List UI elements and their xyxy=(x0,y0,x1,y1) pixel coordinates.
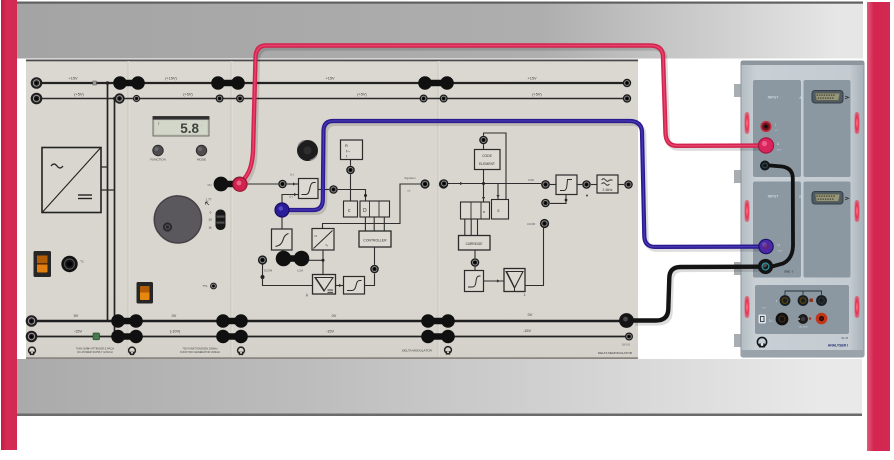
caption P1 xyxy=(76,347,114,355)
panel seam P2/P3 xyxy=(231,61,233,357)
wire P1 vertical feed 2 xyxy=(114,99,116,337)
black cable 1 xyxy=(633,267,758,321)
module mounting hooks xyxy=(734,84,742,347)
socket A ground xyxy=(760,161,770,171)
svg-text:/: / xyxy=(775,123,776,127)
wire dumbbell to node xyxy=(309,259,323,261)
socket demodulator input xyxy=(439,179,448,188)
label UCOM xyxy=(527,222,536,226)
wire filter in xyxy=(591,184,597,186)
socket comparator out xyxy=(329,185,338,194)
label under big socket xyxy=(782,328,783,330)
socket threshold xyxy=(541,199,550,208)
comparator U15 xyxy=(556,175,577,195)
lowpass filter U16 xyxy=(597,175,618,193)
wire DCOM down xyxy=(261,265,313,286)
socket demod out xyxy=(624,180,633,189)
module panel B right xyxy=(804,182,851,278)
terminal +5V left xyxy=(31,93,43,105)
bus bridging plug -15V seam1 xyxy=(111,330,143,344)
svg-text:CODE: CODE xyxy=(482,154,493,158)
range slide switch xyxy=(216,210,226,231)
panel shading overlay xyxy=(26,62,638,358)
label T1 xyxy=(80,260,84,264)
svg-text:0V: 0V xyxy=(528,313,533,317)
LCD display xyxy=(153,116,210,136)
label lambda xyxy=(524,293,526,297)
svg-text:+15V: +15V xyxy=(326,77,335,81)
wire drop 2 xyxy=(496,184,499,200)
wire DAC to sampler xyxy=(322,250,325,277)
bus wire +15V xyxy=(36,82,627,84)
wire sampler to shaper xyxy=(336,284,344,287)
bus label -15V P4 xyxy=(523,329,531,333)
DAC U6 xyxy=(312,229,334,251)
bus bridging plug +15V seam3 xyxy=(418,76,454,90)
wire FG to mod input xyxy=(246,183,278,185)
wire drop to shift cells xyxy=(482,170,485,203)
pushbutton T1 xyxy=(61,256,77,272)
code element box U9 xyxy=(475,150,501,170)
LED right 1 xyxy=(855,112,860,134)
black cable 2 xyxy=(770,166,793,267)
power socket 1 xyxy=(780,295,791,306)
wire plug to integrator xyxy=(281,214,283,229)
D-sub connector A xyxy=(812,91,849,104)
bridging plug FG out to modulator in xyxy=(214,177,247,192)
svg-text:FUNCTION GENERATOR 200kHz: FUNCTION GENERATOR 200kHz xyxy=(180,350,221,354)
power switch S1 xyxy=(34,251,52,277)
svg-text:T1: T1 xyxy=(80,260,84,264)
label LCM xyxy=(297,269,303,273)
bus label (+5V) P2 xyxy=(183,93,193,97)
socket +5V right end xyxy=(623,94,631,102)
terminal -15V left xyxy=(26,331,38,343)
socket A sense xyxy=(761,122,771,132)
socket +5V seam2 right xyxy=(236,95,244,103)
LED left 3 xyxy=(745,296,750,318)
svg-text:INPUT: INPUT xyxy=(768,96,780,100)
wire signal line to demod xyxy=(323,184,421,229)
svg-text:MODE: MODE xyxy=(197,158,206,162)
panel icon P1 right xyxy=(129,347,136,355)
socket decoder out xyxy=(471,258,480,267)
label x(t) xyxy=(290,173,294,177)
bridging plug DCOM-LCM xyxy=(276,251,310,267)
cable shadows xyxy=(245,48,761,323)
svg-text:DCOM: DCOM xyxy=(264,269,273,273)
power knob xyxy=(798,314,811,324)
bus bridging plug 0V seam1 xyxy=(111,314,143,328)
output switch S2 xyxy=(137,282,154,304)
svg-text:(+5V): (+5V) xyxy=(532,93,542,97)
svg-text:736 FUNKTIONSGEN 200kHz: 736 FUNKTIONSGEN 200kHz xyxy=(182,347,218,351)
wire filter out xyxy=(618,184,624,186)
panel icon P3 right xyxy=(445,347,452,355)
socket +5V seam3 right xyxy=(440,95,448,103)
fuse F1 on -15V bus xyxy=(93,333,100,340)
label TTL xyxy=(202,284,208,288)
wire U1 out 1 xyxy=(101,166,108,168)
label x2(t) xyxy=(289,195,293,199)
bus wire +5V xyxy=(36,98,627,100)
label MODE xyxy=(197,158,206,162)
D-sub connector B xyxy=(812,192,849,205)
wire into comparator xyxy=(287,182,299,185)
wire decoder to socket xyxy=(474,250,476,258)
svg-text:NL-70: NL-70 xyxy=(841,337,848,340)
svg-text:ELEMENT: ELEMENT xyxy=(479,162,495,166)
red plug at FG out xyxy=(233,177,247,191)
socket +5V seam3 left xyxy=(420,95,428,103)
bus label 0V P2 xyxy=(172,314,177,318)
module brand text xyxy=(828,337,849,348)
svg-text:2.4kHz: 2.4kHz xyxy=(603,188,613,192)
module headphone icon xyxy=(757,337,766,347)
module body xyxy=(741,61,864,357)
socket comparator4 in xyxy=(541,180,550,189)
svg-text:1.77: 1.77 xyxy=(206,198,212,202)
tiny dot xyxy=(586,195,588,197)
tiny label right end xyxy=(622,344,631,347)
svg-text:0V: 0V xyxy=(172,314,177,318)
socket +5V seam2 left xyxy=(216,95,224,103)
socket code clock xyxy=(479,136,488,145)
svg-text:THIN GMBH ATTINGER & PACH: THIN GMBH ATTINGER & PACH xyxy=(76,347,114,351)
svg-text:LCM: LCM xyxy=(297,269,303,273)
svg-text:-15V: -15V xyxy=(326,330,334,334)
bottom frame bar xyxy=(16,359,862,416)
wire node A1 xyxy=(106,81,110,85)
blue plug at modulator xyxy=(275,203,289,217)
wire comparator lower input xyxy=(282,193,299,205)
step-size knob R1 xyxy=(297,140,318,161)
LED left 2 xyxy=(745,200,750,222)
terminal 0V left xyxy=(26,315,38,327)
sampler U7 xyxy=(313,275,336,295)
caption P4 xyxy=(598,351,633,355)
black plug at module B gnd xyxy=(758,259,773,274)
flipflop cells D xyxy=(360,201,390,217)
wire shaper2 to DAC2 xyxy=(484,279,505,282)
caption P2 xyxy=(180,347,221,355)
bus bridging plug 0V seam3 xyxy=(421,314,455,328)
LED right 3 xyxy=(855,296,860,318)
svg-text:COD: COD xyxy=(528,178,534,182)
module panel A right xyxy=(804,80,851,177)
wire comp4 out xyxy=(550,184,582,186)
bus wire -15V xyxy=(32,336,631,338)
wire shaper to controller xyxy=(365,274,375,286)
svg-text:(+15V): (+15V) xyxy=(165,77,177,81)
bus bridging plug 0V seam2 xyxy=(216,314,248,328)
label U B xyxy=(777,243,783,253)
svg-text:CONTROLLER: CONTROLLER xyxy=(363,239,387,243)
svg-text:D: D xyxy=(363,208,367,214)
svg-text:n: n xyxy=(315,233,317,238)
label B xyxy=(799,195,802,199)
integrator U3 xyxy=(272,229,293,250)
label FUNCTION xyxy=(150,158,166,162)
socket -15V right end xyxy=(625,333,633,341)
button FUNCTION xyxy=(153,145,163,155)
icon fuse box xyxy=(759,315,774,324)
socket modulator signal input xyxy=(278,180,287,189)
label ut xyxy=(407,189,410,193)
socket UCOM xyxy=(540,219,549,228)
svg-text:5V: 5V xyxy=(74,314,79,318)
svg-text:GND ⏚: GND ⏚ xyxy=(784,270,794,274)
sample box U4 xyxy=(341,140,363,160)
bus label (+15V) P2 xyxy=(165,77,177,81)
power socket 2 xyxy=(798,295,809,306)
svg-text:DC-POWER SUPPLY & PACH: DC-POWER SUPPLY & PACH xyxy=(77,350,112,354)
label INPUT B xyxy=(768,195,780,199)
wire DAC2 up to UCOM xyxy=(525,228,544,286)
red cable xyxy=(243,46,758,181)
controller U5 xyxy=(359,231,391,247)
socket +15V right end xyxy=(623,79,631,87)
svg-text:-15V: -15V xyxy=(523,329,531,333)
wire controller to socket xyxy=(374,247,376,265)
socket TTL out xyxy=(210,283,217,290)
socket +5V seam1 right xyxy=(133,95,140,102)
bus label +15V P1 xyxy=(69,77,78,81)
LED right 2 xyxy=(855,200,860,222)
training panel background xyxy=(26,60,638,360)
svg-text:(+5V): (+5V) xyxy=(74,93,84,97)
DAC2 U14 xyxy=(504,269,525,292)
power red mark xyxy=(810,299,813,302)
wire cells to controller xyxy=(365,217,384,231)
wire to D flipflop xyxy=(338,190,367,202)
bus label (+5V) P3 xyxy=(357,93,367,97)
wire threshold xyxy=(550,195,567,204)
socket filter in xyxy=(582,180,591,189)
svg-text:(+5V): (+5V) xyxy=(183,93,193,97)
label A xyxy=(799,96,802,100)
label DCOM xyxy=(264,269,273,273)
panel seam P1/P2 xyxy=(128,61,130,357)
module panel A left xyxy=(753,80,801,177)
socket DCOM xyxy=(258,255,267,264)
label freq range xyxy=(206,198,213,230)
svg-text:u(-: u(- xyxy=(407,189,410,193)
bus bridging plug -15V seam3 xyxy=(421,330,455,344)
wire P1 vertical feed 1 xyxy=(107,83,109,321)
svg-text:CAL MKII: CAL MKII xyxy=(798,326,808,329)
module panel B left xyxy=(753,182,801,278)
frequency knob xyxy=(154,196,201,243)
bus label (-10V) P2 xyxy=(170,330,181,334)
svg-text:+15V: +15V xyxy=(528,77,537,81)
black plug at 0V bus xyxy=(619,313,634,328)
flipflop cell C xyxy=(344,201,358,217)
svg-text:1W 1K1: 1W 1K1 xyxy=(622,344,631,347)
svg-text:≡: ≡ xyxy=(497,208,500,213)
panel icon P2 right xyxy=(238,347,245,355)
decoder U12 xyxy=(459,236,491,251)
bus label -15V P3 xyxy=(326,330,334,334)
bus label 0V P4 xyxy=(528,313,533,317)
latch box U11 xyxy=(492,200,509,220)
comparator U2 xyxy=(299,179,319,199)
svg-text:DELTA MODULATOR: DELTA MODULATOR xyxy=(402,349,432,353)
bus label (+5V) P1 xyxy=(74,93,84,97)
blue plug at module B xyxy=(759,239,773,253)
power socket red xyxy=(816,313,828,325)
shift cells U10 xyxy=(461,202,490,219)
svg-text:f(-): f(-) xyxy=(290,173,294,177)
power bracket wire xyxy=(785,291,822,295)
wire node A2 xyxy=(113,97,116,100)
panel seam P3/P4 xyxy=(438,61,440,357)
panel icon P1 left xyxy=(29,347,36,355)
caption P3 xyxy=(402,349,432,353)
socket +5V seam1 left xyxy=(114,93,124,103)
bus label (+5V) P4 xyxy=(532,93,542,97)
svg-text:(-10V): (-10V) xyxy=(170,330,181,334)
svg-text:10: 10 xyxy=(208,218,212,222)
socket controller feedback xyxy=(370,265,379,274)
bus bridging plug +15V seam2 xyxy=(211,76,245,90)
socket modulator output xyxy=(420,179,429,188)
svg-text:FUNCTION: FUNCTION xyxy=(150,158,166,162)
svg-text:300V: 300V xyxy=(776,150,782,152)
label under knob xyxy=(798,326,808,329)
bus label +15V P3 xyxy=(326,77,335,81)
svg-text:ANALYSER I: ANALYSER I xyxy=(828,344,848,348)
svg-text:n: n xyxy=(483,209,485,214)
bus wire 0V xyxy=(32,320,631,322)
label OUT xyxy=(208,183,212,187)
svg-text:DELTA DEMODULATOR: DELTA DEMODULATOR xyxy=(598,351,633,355)
svg-text:+15V: +15V xyxy=(69,77,78,81)
left frame rail xyxy=(1,0,17,450)
label A sense xyxy=(775,123,779,132)
label U A xyxy=(776,142,782,152)
bus label -15V P1 xyxy=(74,330,82,334)
shaper U8 xyxy=(344,277,365,295)
label A-bar xyxy=(306,294,309,298)
svg-text:R: R xyxy=(345,143,348,148)
bus bridging plug +15V seam1 xyxy=(113,76,145,90)
terminal +15V left xyxy=(31,77,43,89)
AC/DC converter U1 xyxy=(42,148,101,213)
svg-text:((-): ((-) xyxy=(289,195,293,199)
bus label 0V P3 xyxy=(332,314,337,318)
right frame rail xyxy=(867,2,890,451)
label GND B xyxy=(784,270,794,274)
svg-text:mV: mV xyxy=(775,130,779,132)
svg-text:UCOM: UCOM xyxy=(527,222,536,226)
label Signalver xyxy=(404,176,415,180)
svg-text:0V: 0V xyxy=(332,314,337,318)
svg-text:OU: OU xyxy=(208,183,212,187)
svg-text:TTL: TTL xyxy=(202,284,208,288)
label COD xyxy=(528,178,534,182)
wire comparator output xyxy=(318,189,329,191)
svg-text:-15V: -15V xyxy=(74,330,82,334)
label II xyxy=(776,299,778,303)
svg-text:INPUT: INPUT xyxy=(768,195,780,199)
blue cable xyxy=(287,121,759,247)
svg-text:300V: 300V xyxy=(777,251,783,253)
socket demod in xyxy=(440,179,449,188)
wire integrator to plug LCM xyxy=(282,250,283,254)
bus label +15V P4 xyxy=(528,77,537,81)
power socket 3 xyxy=(816,295,827,306)
bus bridging plug -15V seam2 xyxy=(216,330,248,344)
wire U1 out 2 xyxy=(101,189,115,191)
top frame bar xyxy=(16,2,863,59)
wire clock route xyxy=(484,133,507,200)
bus label 0V P1 xyxy=(74,314,79,318)
svg-text:5.8: 5.8 xyxy=(180,121,199,136)
wire demod input line xyxy=(448,182,541,185)
label INPUT A xyxy=(768,96,780,100)
power socket big xyxy=(776,313,789,326)
wire cells to decoder xyxy=(465,219,478,236)
LED left 1 xyxy=(745,112,750,134)
module power panel xyxy=(755,285,849,334)
button MODE xyxy=(196,145,206,155)
LCD digits xyxy=(157,121,203,136)
wire socket to shaper2 xyxy=(474,267,476,271)
svg-text:CARRIDGE: CARRIDGE xyxy=(466,242,483,246)
label DT4 xyxy=(762,308,767,310)
svg-text:(+5V): (+5V) xyxy=(357,93,367,97)
svg-text:Signalver: Signalver xyxy=(404,176,415,180)
fuse bead on +15V bus xyxy=(93,81,97,85)
svg-text:1k: 1k xyxy=(208,226,212,230)
shaper U13 xyxy=(465,271,484,292)
red plug at module A xyxy=(758,138,773,153)
svg-text:∿: ∿ xyxy=(325,243,328,248)
socket sampling clock xyxy=(346,166,355,175)
wire clock down xyxy=(350,160,352,202)
